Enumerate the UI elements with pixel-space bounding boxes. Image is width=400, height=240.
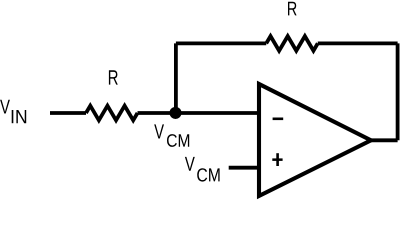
- wire feedback drop: [396, 43, 400, 140]
- resistor R (input) value label: [109, 70, 118, 84]
- op-amp U1: [259, 84, 371, 196]
- wire output: [371, 138, 398, 142]
- node V_CM label at junction: [154, 124, 189, 147]
- wire VCM to non-inverting input: [229, 166, 259, 170]
- wire top left: [176, 42, 266, 46]
- op-amp inverting pin minus sign: [273, 118, 284, 121]
- op-amp non-inverting pin plus sign: [272, 153, 282, 166]
- resistor R (input): [86, 106, 138, 121]
- resistor R (feedback) value label: [288, 2, 297, 16]
- wire top right: [318, 42, 398, 46]
- node V_IN label: [0, 100, 26, 123]
- wire V_IN lead: [50, 111, 86, 115]
- wire to inverting input: [138, 111, 258, 115]
- node V_CM label at non-inverting input: [185, 157, 220, 182]
- resistor R (feedback): [266, 36, 318, 51]
- node VCM junction dot: [169, 107, 181, 119]
- wire feedback riser: [174, 43, 178, 113]
